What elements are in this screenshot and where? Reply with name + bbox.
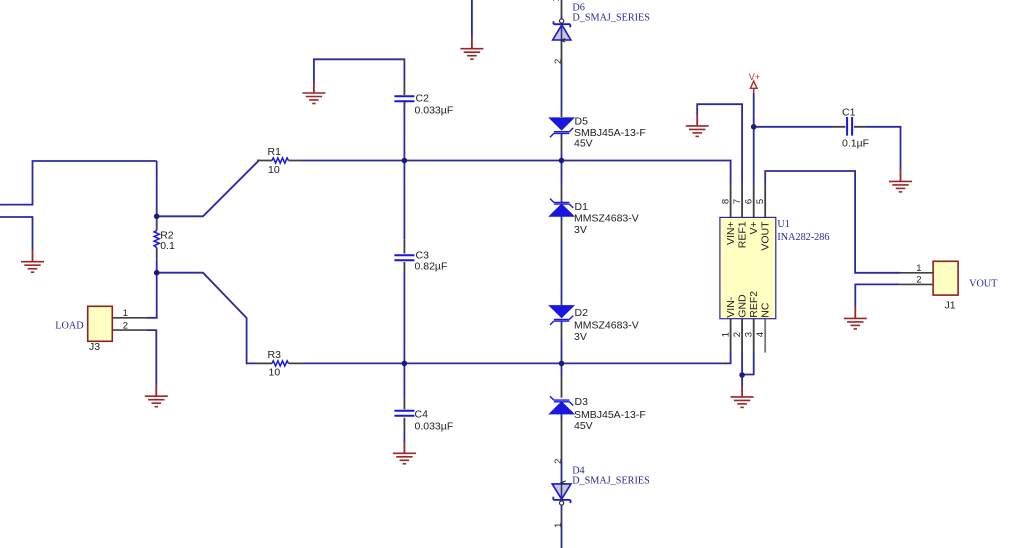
wire through D4 — [561, 484, 563, 500]
ground top center — [460, 37, 483, 59]
wire top rail to C3 — [403, 161, 405, 240]
svg-text:3V: 3V — [574, 224, 587, 236]
capacitor C2 — [394, 96, 414, 101]
junction node top rail / diode column — [559, 158, 565, 164]
svg-text:7: 7 — [732, 199, 743, 204]
capacitor C4 — [394, 411, 414, 416]
svg-text:D1: D1 — [575, 201, 589, 213]
svg-text:10: 10 — [268, 164, 280, 176]
svg-text:0.033µF: 0.033µF — [415, 104, 454, 116]
svg-text:V+: V+ — [749, 72, 760, 82]
resistor R3 pins — [257, 362, 302, 364]
svg-text:R3: R3 — [268, 349, 282, 361]
svg-text:0.033µF: 0.033µF — [415, 420, 454, 432]
svg-text:0.1: 0.1 — [160, 240, 175, 252]
svg-text:VOUT: VOUT — [760, 221, 772, 251]
svg-text:1: 1 — [916, 263, 921, 274]
diode D6 — [553, 19, 571, 42]
svg-text:D_SMAJ_SERIES: D_SMAJ_SERIES — [572, 13, 650, 24]
svg-text:D5: D5 — [575, 115, 589, 127]
capacitor C3 — [394, 255, 414, 260]
capacitor C1 pins — [833, 126, 866, 128]
svg-text:J1: J1 — [945, 299, 956, 311]
svg-text:GND: GND — [737, 294, 749, 318]
svg-text:45V: 45V — [574, 138, 593, 150]
svg-text:6: 6 — [744, 199, 755, 204]
ground U1 GND — [731, 385, 754, 407]
wire J3 pin2 to ground — [147, 330, 156, 385]
diode D4 — [552, 481, 571, 505]
wire left lower stub to ground — [0, 217, 33, 250]
svg-text:2: 2 — [123, 320, 128, 331]
wire C2 top loop to ground branch — [314, 59, 405, 81]
wire U1 pin3 REF2 to pin2 node — [742, 352, 754, 375]
junction node R2 top — [154, 214, 160, 220]
wire J1 pin2 to ground — [855, 284, 900, 307]
ground J1 — [844, 307, 867, 329]
svg-text:1: 1 — [721, 332, 732, 337]
wire C1 right to ground — [866, 127, 901, 170]
wire C2 bottom to top rail — [403, 102, 405, 160]
ground left — [21, 250, 44, 272]
svg-text:C1: C1 — [842, 107, 856, 119]
svg-text:1: 1 — [553, 523, 564, 528]
junction node bottom rail / diode column — [559, 361, 565, 367]
svg-text:3: 3 — [744, 332, 755, 337]
diode D5 — [549, 118, 573, 137]
resistor R2 pins — [156, 219, 158, 260]
junction node bottom rail / C column — [402, 361, 408, 367]
connector J1 pin lines — [900, 273, 933, 285]
wire V+ node to C1 left — [754, 126, 833, 128]
svg-text:LOAD: LOAD — [55, 321, 83, 332]
svg-text:0.82µF: 0.82µF — [415, 260, 448, 272]
svg-text:REF2: REF2 — [748, 291, 760, 318]
svg-text:2: 2 — [916, 274, 921, 285]
svg-text:2: 2 — [732, 332, 743, 337]
power V+ symbol — [749, 72, 760, 93]
junction node V+ / C1 — [751, 124, 757, 130]
svg-text:NC: NC — [760, 302, 772, 318]
capacitor C4 pins — [403, 397, 405, 433]
wire top rail R1 to U1 pin8 — [302, 161, 731, 184]
svg-text:D2: D2 — [575, 307, 589, 319]
svg-text:10: 10 — [269, 367, 281, 379]
svg-text:C2: C2 — [416, 92, 430, 104]
svg-text:MMSZ4683-V: MMSZ4683-V — [574, 212, 639, 224]
svg-text:U1: U1 — [777, 219, 789, 230]
ground J3 — [145, 384, 168, 406]
wire left upper stub to top-left loop — [0, 161, 157, 205]
svg-text:VOUT: VOUT — [969, 278, 998, 289]
ground right of C1 — [889, 170, 912, 192]
resistor R1 pins — [257, 160, 302, 162]
ground under C4 — [393, 441, 416, 463]
svg-text:MMSZ4683-V: MMSZ4683-V — [574, 320, 639, 332]
svg-text:1: 1 — [123, 308, 128, 319]
svg-text:J3: J3 — [89, 341, 100, 353]
wire R2 lower node down to J3 pin1 — [147, 273, 157, 318]
svg-text:8: 8 — [721, 199, 732, 204]
wire diode column blue segments — [561, 15, 563, 548]
wire R2 to lower node — [156, 259, 158, 272]
wire diagonal R2 lower node to bottom rail — [157, 273, 257, 364]
svg-text:45V: 45V — [574, 420, 593, 432]
junction node top rail / C column — [402, 158, 408, 164]
wire C4 to ground — [403, 433, 405, 442]
junction node U1 GND/REF2 — [739, 372, 745, 378]
svg-text:2: 2 — [553, 59, 564, 64]
junction node R2 bottom — [154, 270, 160, 276]
svg-text:3V: 3V — [574, 331, 587, 343]
diode D1 — [549, 199, 573, 217]
svg-text:VIN-: VIN- — [725, 296, 737, 318]
resistor R3 — [272, 361, 289, 366]
svg-text:2: 2 — [553, 459, 564, 464]
wire C3 to bottom rail — [403, 273, 405, 363]
capacitor C2 pins — [403, 82, 405, 106]
wire bottom rail to C4 — [403, 363, 405, 397]
wire top center to ground — [471, 0, 473, 37]
connector J1 body — [933, 261, 958, 295]
svg-text:D_SMAJ_SERIES: D_SMAJ_SERIES — [572, 475, 650, 486]
svg-text:5: 5 — [755, 199, 766, 204]
diode D2 — [549, 306, 573, 325]
resistor R1 — [272, 158, 289, 163]
wire diode column black pin segments — [561, 0, 563, 522]
svg-text:0.1µF: 0.1µF — [842, 138, 869, 150]
wire REF1 pin7 to ground loop — [697, 104, 742, 183]
wire V+ to pin6 — [753, 93, 755, 183]
svg-text:C4: C4 — [415, 409, 429, 421]
wire U1 pin2 GND down — [741, 352, 743, 386]
svg-text:D3: D3 — [575, 396, 589, 408]
U1 pin4 NC stub — [764, 319, 766, 353]
wire diagonal R2 node to R1 — [157, 161, 259, 217]
wire VOUT pin5 to J1 pin1 — [765, 171, 900, 273]
wire vertical into R2 top node — [156, 161, 158, 216]
svg-text:VIN+: VIN+ — [725, 221, 737, 245]
U1 bottom pin lines 1-3 — [731, 319, 754, 352]
wire through D6 — [561, 24, 563, 40]
svg-text:R1: R1 — [268, 146, 282, 158]
capacitor C3 pins — [403, 239, 405, 273]
op-amp U1 body — [720, 217, 776, 318]
connector J3 pin lines — [112, 318, 147, 330]
wire bottom rail R3 to U1 pin1 — [302, 352, 730, 363]
connector J3 body — [88, 306, 113, 341]
resistor R2 — [154, 231, 159, 248]
svg-text:REF1: REF1 — [737, 221, 749, 248]
diode D3 — [549, 396, 573, 414]
capacitor C1 — [847, 117, 852, 136]
U1 top pin lines — [731, 183, 766, 217]
svg-text:4: 4 — [755, 332, 766, 337]
svg-text:1: 1 — [551, 0, 562, 2]
ground REF1 — [686, 114, 709, 136]
svg-text:V+: V+ — [748, 221, 760, 234]
svg-text:INA282-286: INA282-286 — [777, 232, 829, 243]
ground near C2 — [302, 81, 325, 103]
